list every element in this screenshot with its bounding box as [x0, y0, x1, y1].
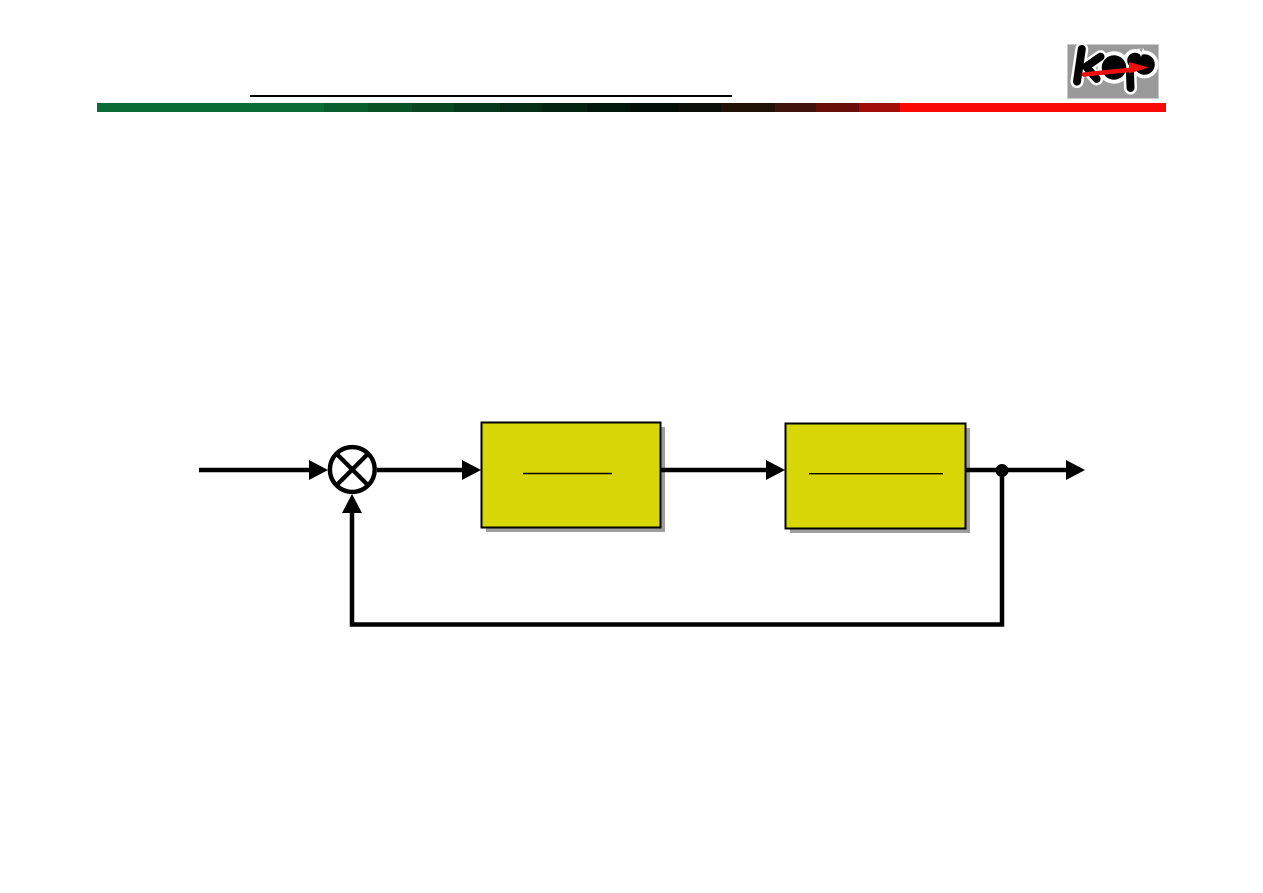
gradient bar (green to black to red, stepped): [97, 103, 1166, 112]
output arrowhead: [1066, 460, 1085, 480]
arrowhead into block G2: [766, 460, 785, 480]
block G1 shadow: [486, 427, 665, 532]
letter p stem (black): [1126, 73, 1135, 88]
input arrowhead: [309, 460, 328, 480]
letter k (white outline): [1077, 49, 1101, 82]
wire: input line: [199, 468, 312, 473]
wire: block G2 to output: [966, 468, 1068, 473]
letter k (black): [1077, 49, 1101, 82]
red arrow through logo: [1084, 62, 1149, 75]
fraction bar in block G2: [809, 473, 943, 475]
block G1: [482, 423, 661, 528]
wire: block G1 to block G2: [661, 468, 769, 473]
letter p bowl (white outline + black lobes): [1124, 49, 1147, 72]
wire: feedback path: [352, 470, 1002, 625]
node: branch point dot: [996, 464, 1009, 477]
kap logo (top right): [1067, 44, 1159, 99]
letter a (black): [1102, 55, 1127, 79]
arrowhead into block G1: [462, 460, 481, 480]
wire: summing junction to block G1: [377, 468, 465, 473]
logo background plate: [1067, 44, 1159, 99]
fraction bar in block G1: [523, 473, 612, 475]
summing junction circle with X: [330, 447, 375, 492]
thin black rule above gradient bar: [250, 95, 732, 98]
letter a (white outline): [1098, 51, 1131, 84]
notch at top of p bowl: [1138, 49, 1144, 57]
letter p stem (white outline): [1124, 73, 1138, 88]
feedback arrowhead into summing junction: [342, 494, 362, 513]
block G2: [786, 424, 966, 529]
block G2 shadow: [790, 428, 970, 533]
